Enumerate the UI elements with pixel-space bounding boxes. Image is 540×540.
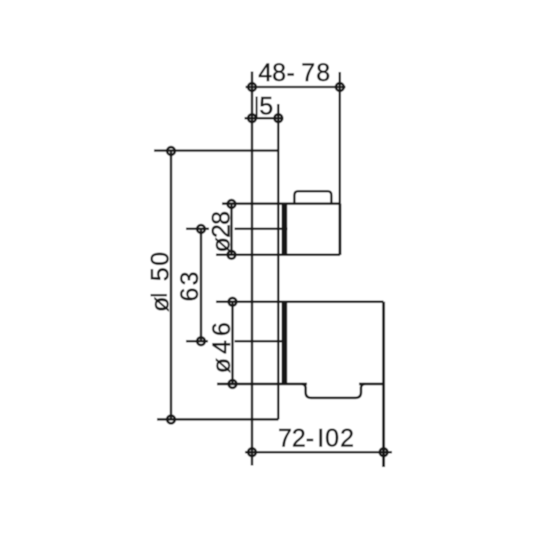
svg-text:5: 5 — [259, 93, 273, 121]
svg-text:48: 48 — [258, 59, 286, 87]
svg-text:78: 78 — [301, 59, 330, 87]
svg-text:72-: 72- — [278, 425, 314, 453]
svg-text:I02: I02 — [317, 425, 354, 453]
svg-text:50: 50 — [147, 252, 175, 282]
svg-text:ø: ø — [147, 297, 175, 312]
svg-text:-: - — [287, 59, 295, 87]
